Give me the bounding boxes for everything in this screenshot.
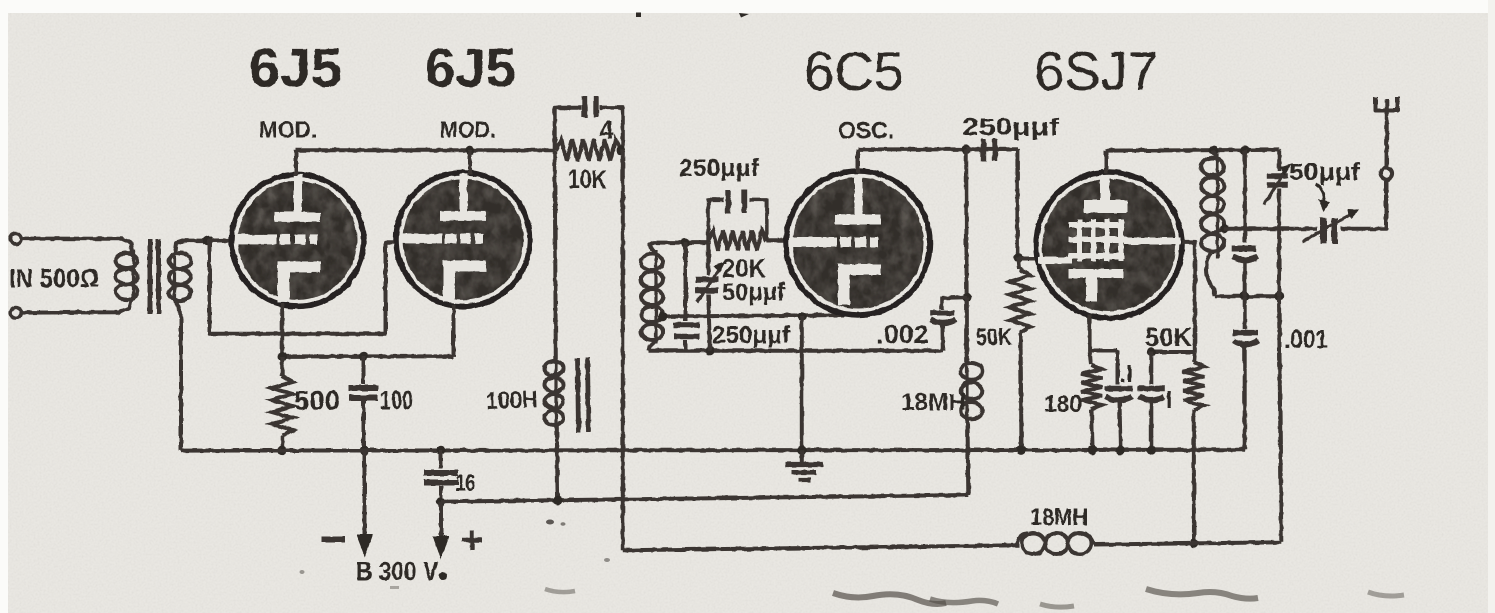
capacitor C13 arrow bbox=[1265, 169, 1287, 205]
svg-text:MOD.: MOD. bbox=[259, 117, 317, 143]
wire B+ feed line bbox=[441, 495, 968, 502]
wire tank node down bbox=[1279, 296, 1281, 542]
input terminal top bbox=[10, 233, 21, 244]
node plate rail mid bbox=[962, 145, 971, 154]
antenna terminal bbox=[1381, 168, 1393, 180]
node tank tap bbox=[1220, 224, 1229, 233]
node bus ground bbox=[797, 446, 806, 455]
capacitor C2 16 bbox=[439, 450, 443, 468]
wire grid to V3 bbox=[767, 238, 788, 242]
wire osc cathode line bbox=[663, 315, 844, 317]
resistor R3 20K bbox=[708, 231, 766, 251]
wire keying line bbox=[623, 545, 1019, 550]
capacitor C3 4 bbox=[582, 97, 587, 118]
capacitor C14 arrow bbox=[1303, 213, 1354, 242]
wire secondary bottom bbox=[175, 300, 181, 450]
capacitor C1 100 bbox=[362, 356, 366, 384]
inductor L4 tank coil bbox=[1216, 153, 1219, 258]
battery B+ arrow bbox=[433, 536, 450, 559]
inductor L1 core bbox=[578, 358, 579, 433]
svg-text:MOD.: MOD. bbox=[440, 117, 496, 143]
svg-text:6J5: 6J5 bbox=[425, 37, 516, 99]
svg-text:50K: 50K bbox=[976, 324, 1013, 351]
svg-text:250μμf: 250μμf bbox=[712, 322, 791, 349]
wire osc mid vert bbox=[964, 149, 969, 362]
capacitor C9 .1 bbox=[1116, 351, 1120, 385]
wire B+ drop bbox=[439, 502, 443, 540]
node bus C9 bbox=[1116, 446, 1125, 455]
resistor R1 500 bbox=[280, 356, 284, 376]
wire key line right bbox=[1094, 542, 1281, 544]
svg-text:.002: .002 bbox=[876, 319, 929, 349]
capacitor C4 250uuf plates bbox=[725, 190, 730, 214]
wire antenna feed bbox=[1341, 181, 1387, 229]
resistor R7 50K screen bbox=[1192, 352, 1197, 362]
wire ground bus bbox=[181, 448, 1245, 453]
inductor L1 100H lead bbox=[555, 150, 556, 359]
node bus R5 bbox=[1017, 446, 1026, 455]
node osc grid top bbox=[681, 238, 690, 247]
wire B- drop bbox=[363, 450, 367, 538]
tube V2 6J5 bbox=[396, 172, 530, 306]
wire ground vert bbox=[800, 316, 804, 450]
scan specks bbox=[636, 13, 641, 18]
capacitor C7 250uuf bbox=[981, 139, 986, 162]
svg-text:500: 500 bbox=[294, 385, 340, 416]
svg-text:100: 100 bbox=[380, 385, 413, 415]
label plus bbox=[462, 538, 482, 542]
node .002 junction bbox=[962, 293, 971, 302]
svg-text:250μμf: 250μμf bbox=[962, 114, 1060, 141]
wire right vert from 10K bbox=[621, 150, 625, 550]
wire 4uf rail right bbox=[600, 108, 623, 150]
svg-text:250μμf: 250μμf bbox=[679, 155, 760, 182]
node rail cap bbox=[1240, 145, 1249, 154]
wire V2 cathode stub bbox=[452, 305, 456, 357]
svg-text:.001: .001 bbox=[1284, 324, 1328, 354]
node cathode/ground vert bbox=[797, 312, 806, 321]
capacitor C4 250uuf box bbox=[708, 200, 723, 243]
node bus R1 bbox=[278, 446, 287, 455]
node tank bottom cap bbox=[1240, 292, 1249, 301]
capacitor C6 250uuf bbox=[684, 243, 688, 321]
wire V3 plate rail bbox=[858, 147, 1017, 151]
svg-text:6C5: 6C5 bbox=[804, 40, 904, 102]
node bus 16uf bbox=[436, 446, 445, 455]
transformer T1 core bbox=[148, 239, 153, 314]
wire V4 screen stub bbox=[1182, 242, 1195, 352]
ground symbol bbox=[800, 450, 804, 463]
node B+ 100H bbox=[553, 496, 562, 505]
resistor R2 10K bbox=[556, 139, 621, 161]
wire V4 top rail bbox=[1106, 148, 1279, 153]
node tank bottom C5 bbox=[705, 346, 714, 355]
wire antenna tap line bbox=[1224, 227, 1317, 231]
wire V3 plate stub bbox=[856, 149, 860, 172]
node coil tap bbox=[658, 312, 667, 321]
wire V4 cathode stub bbox=[1090, 314, 1118, 351]
wire coupling down bbox=[1015, 149, 1019, 258]
input terminal bottom bbox=[10, 307, 21, 318]
capacitor C5 50uuf bbox=[706, 243, 710, 275]
svg-text:100H: 100H bbox=[485, 386, 538, 415]
svg-text:IN 500Ω: IN 500Ω bbox=[9, 263, 99, 293]
wire V2 plate stub bbox=[468, 150, 472, 174]
wire osc coil bottom bbox=[649, 342, 656, 351]
wire 100H down bbox=[555, 425, 560, 500]
wire secondary top bbox=[175, 241, 208, 252]
wire cathode rail bbox=[282, 354, 453, 358]
inductor L5 18MH bbox=[1016, 533, 1028, 545]
svg-text:50K: 50K bbox=[1145, 322, 1192, 352]
wire input bottom bbox=[22, 299, 132, 313]
svg-text:18MH: 18MH bbox=[901, 389, 966, 416]
svg-text:10K: 10K bbox=[568, 164, 607, 194]
node bus R6 bbox=[1088, 446, 1097, 455]
node screen rail bbox=[1147, 348, 1155, 356]
label arrow annotate bbox=[1316, 184, 1324, 201]
node bus C1/B- bbox=[360, 446, 369, 455]
tube V3 6C5 bbox=[786, 171, 930, 315]
wire grid tie-down bbox=[210, 241, 397, 334]
wire input top bbox=[22, 239, 133, 252]
capacitor C8 .002 bbox=[942, 297, 967, 309]
wire grid to V1 bbox=[208, 238, 233, 242]
svg-text:6J5: 6J5 bbox=[249, 37, 342, 99]
capacitor C13 50uuf variable bbox=[1277, 150, 1281, 171]
capacitor C11 tank bbox=[1243, 150, 1247, 243]
svg-text:16: 16 bbox=[456, 470, 475, 497]
antenna symbol bbox=[1376, 97, 1398, 111]
transformer T1 secondary bbox=[173, 250, 176, 302]
node secondary/grid junction bbox=[203, 236, 212, 245]
wire C7 gap cover bbox=[966, 147, 980, 151]
wire 4uf top rail bbox=[555, 108, 582, 151]
capacitor C12 .001 bbox=[1243, 296, 1247, 329]
svg-text:OSC.: OSC. bbox=[838, 118, 894, 145]
svg-text:l: l bbox=[1166, 387, 1172, 413]
svg-text:50μμf: 50μμf bbox=[722, 279, 786, 306]
wire tank coil bottom bbox=[1206, 253, 1214, 296]
wire L3 down bbox=[966, 420, 971, 495]
label minus bbox=[321, 537, 345, 543]
wire screen cap rail bbox=[1151, 350, 1194, 354]
inductor L3 18MH lead bbox=[965, 297, 969, 362]
transformer T1 primary bbox=[132, 250, 135, 300]
inductor L2 osc coil bbox=[654, 250, 657, 344]
wire V1 cathode stub bbox=[280, 304, 284, 357]
svg-text:B 300 V: B 300 V bbox=[356, 556, 439, 586]
wire plate bus bbox=[296, 148, 555, 152]
node plate bus V2 bbox=[465, 146, 474, 155]
inductor L1 100H bbox=[554, 359, 557, 428]
battery B- arrow bbox=[356, 534, 373, 557]
tube V4 6SJ7 bbox=[1036, 172, 1182, 318]
node 16uf/B+ junction bbox=[436, 497, 445, 506]
node V4 grid junction bbox=[1014, 253, 1023, 262]
tube V1 6J5 bbox=[232, 174, 364, 306]
node cathode rail C1 bbox=[359, 352, 368, 361]
wire V4 plate stub bbox=[1104, 151, 1108, 173]
node cathode rail R1 bbox=[278, 352, 287, 361]
svg-text:180: 180 bbox=[1044, 391, 1082, 418]
wire osc coil top bbox=[649, 243, 708, 252]
wire grid stub V4 bbox=[1019, 257, 1039, 261]
svg-text:6SJ7: 6SJ7 bbox=[1034, 40, 1158, 102]
node keyline R7 bbox=[1189, 539, 1198, 548]
svg-text:.l: .l bbox=[1120, 361, 1133, 387]
inductor L3 18MH bbox=[965, 362, 968, 424]
wire antenna lead bbox=[1385, 112, 1389, 168]
node bus C10 bbox=[1147, 446, 1156, 455]
svg-text:18MH: 18MH bbox=[1030, 504, 1088, 531]
svg-text:50μμf: 50μμf bbox=[1289, 159, 1361, 186]
resistor R5 50K grid leak bbox=[1019, 258, 1020, 269]
capacitor C10 screen bypass bbox=[1149, 352, 1153, 385]
resistor R6 180 bbox=[1090, 351, 1091, 366]
node tank bottom right bbox=[1274, 292, 1283, 301]
capacitor C14 antenna variable bbox=[1321, 218, 1327, 244]
node rail coil bbox=[1209, 146, 1218, 155]
node R2 right bbox=[616, 145, 625, 154]
capacitor C5 arrow bbox=[697, 269, 721, 303]
wire tank coil top bbox=[1214, 150, 1217, 156]
wire V1 plate stub bbox=[294, 150, 298, 176]
